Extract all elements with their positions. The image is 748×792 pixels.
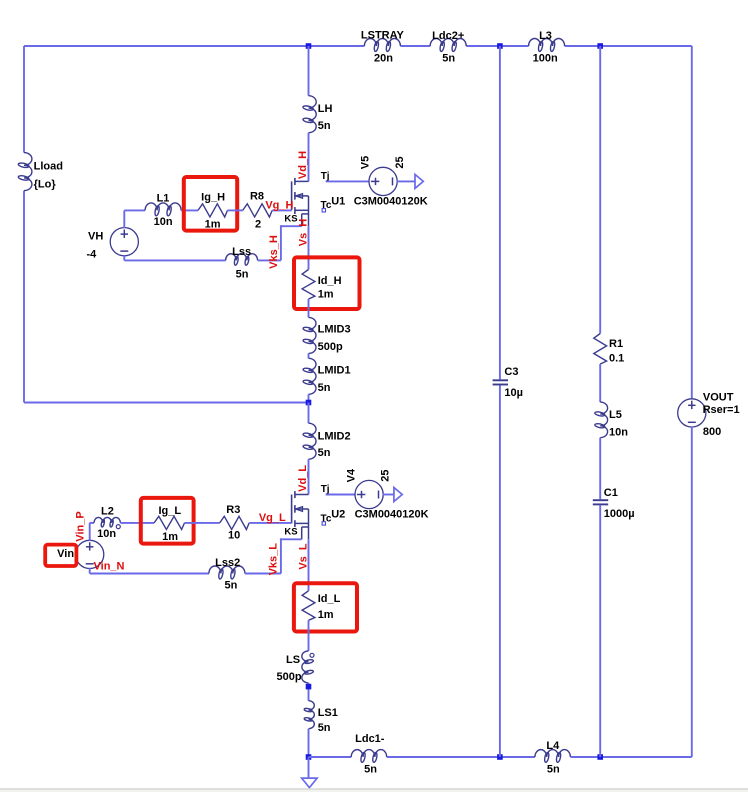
svg-text:Vg_H: Vg_H	[265, 199, 293, 211]
wire L4 to C1 bottom	[570, 756, 691, 758]
svg-text:Vks_H: Vks_H	[268, 235, 280, 269]
svg-text:20n: 20n	[374, 53, 393, 65]
wire L2 to Ig_L	[120, 522, 154, 524]
svg-text:1m: 1m	[162, 531, 178, 543]
inductor Lss	[226, 246, 258, 280]
svg-text:Lload: Lload	[34, 161, 63, 173]
svg-text:10: 10	[228, 529, 240, 541]
wire LH to U1 drain	[308, 133, 310, 182]
inductor Lss2	[209, 557, 245, 592]
wire Lss2 to KS riser	[245, 573, 281, 575]
wire Vin minus lead	[89, 568, 91, 573]
svg-text:Rser=1: Rser=1	[703, 404, 740, 416]
svg-text:2: 2	[255, 218, 261, 230]
svg-text:5n: 5n	[442, 52, 455, 64]
inductor L3	[529, 30, 565, 64]
svg-text:Id_L: Id_L	[318, 593, 341, 605]
node Vs_L label	[298, 543, 310, 570]
svg-text:5n: 5n	[364, 764, 377, 776]
transistor U1	[292, 178, 428, 226]
wire LMID1 to node	[308, 394, 310, 402]
ground V5	[415, 174, 423, 188]
svg-text:Ldc1-: Ldc1-	[355, 733, 385, 745]
svg-text:LMID3: LMID3	[318, 323, 351, 335]
voltage source V4	[346, 468, 392, 509]
ground main	[302, 778, 317, 788]
wire L5 to C1	[599, 438, 601, 500]
node Vks_L label	[268, 543, 280, 576]
wire VH minus lead	[123, 255, 125, 260]
wire C1 bottom lead	[599, 505, 601, 757]
ground V4	[394, 488, 402, 502]
svg-text:Ig_H: Ig_H	[201, 192, 225, 204]
svg-text:LMID2: LMID2	[318, 430, 351, 442]
resistor R1	[594, 334, 624, 365]
svg-text:KS: KS	[284, 527, 297, 538]
svg-text:Vd_H: Vd_H	[297, 151, 309, 179]
node Tj pin U2	[321, 484, 330, 495]
node Vd_H label	[297, 151, 309, 179]
inductor LMID3	[303, 317, 351, 353]
svg-text:L2: L2	[101, 505, 114, 517]
svg-text:1m: 1m	[318, 288, 334, 300]
svg-text:0.1: 0.1	[609, 352, 624, 364]
node C3-top junction	[497, 43, 503, 49]
node bottom junction	[306, 754, 312, 760]
svg-text:L5: L5	[609, 409, 622, 421]
svg-text:10µ: 10µ	[504, 387, 523, 399]
wire L1 to Ig_H	[181, 209, 198, 211]
wire VOUT top lead	[691, 46, 693, 399]
voltage source Vin	[57, 540, 104, 568]
inductor L5	[595, 402, 629, 438]
svg-text:LS1: LS1	[318, 707, 338, 719]
wire V4 to ground	[383, 494, 394, 496]
svg-text:U1: U1	[331, 195, 345, 207]
inductor L2	[94, 505, 120, 539]
svg-text:5n: 5n	[318, 120, 331, 132]
svg-text:Lss2: Lss2	[215, 557, 240, 569]
svg-text:5n: 5n	[318, 447, 331, 459]
svg-text:500p: 500p	[318, 341, 343, 353]
svg-text:LH: LH	[318, 103, 333, 115]
wire top rail a	[24, 45, 364, 47]
wire VH to Lss	[124, 259, 225, 261]
wire R1 top lead	[599, 46, 601, 334]
wire Id_L to LS	[308, 620, 310, 651]
svg-text:5n: 5n	[547, 764, 560, 776]
svg-text:L4: L4	[546, 740, 560, 752]
svg-text:R8: R8	[250, 190, 264, 202]
svg-text:Vin_N: Vin_N	[94, 561, 125, 573]
svg-text:{Lo}: {Lo}	[34, 178, 57, 190]
wire KS riser U2	[280, 538, 282, 573]
node Vin_P label	[74, 511, 86, 541]
node switch junction	[306, 400, 312, 406]
wire LMID3 to LMID1	[308, 353, 310, 358]
inductor LH	[303, 96, 333, 133]
wire left rail lower	[23, 191, 25, 403]
node Vks_H label	[268, 235, 280, 269]
wire KS horizontal U2	[281, 538, 302, 540]
wire Vin to Lss2	[90, 573, 209, 575]
svg-text:25: 25	[394, 156, 406, 168]
svg-text:V4: V4	[346, 468, 358, 482]
resistor R3	[220, 504, 250, 542]
capacitor C1	[593, 487, 635, 520]
node R1-top junction	[597, 43, 603, 49]
capacitor C3	[493, 366, 523, 399]
svg-text:Ldc2+: Ldc2+	[432, 30, 464, 42]
wire LMID2 to U2 drain	[308, 459, 310, 494]
highlight box Ig_H	[184, 177, 237, 231]
voltage source VH	[87, 228, 139, 261]
wire bottom to Ldc1-	[309, 756, 352, 758]
svg-text:VH: VH	[88, 230, 103, 242]
node C1-bottom junction	[597, 754, 603, 760]
svg-text:R1: R1	[609, 338, 623, 350]
node top-drain junction	[306, 43, 312, 49]
node LS-LS1 junction	[306, 684, 312, 690]
window edge	[0, 789, 748, 792]
svg-text:-4: -4	[87, 248, 98, 260]
wire KS horizontal U1	[281, 225, 302, 227]
wire U1 source to Id_H	[308, 226, 310, 269]
wire VH plus lead	[123, 210, 125, 228]
wire U2 source to Id_L	[308, 539, 310, 591]
highlight box Vin	[45, 545, 76, 566]
node Tc pin U1	[321, 200, 332, 212]
svg-text:Vin: Vin	[57, 548, 74, 560]
wire Id_H to LMID3	[308, 299, 310, 317]
node KS label U2	[284, 527, 297, 538]
svg-text:C3M0040120K: C3M0040120K	[354, 195, 428, 207]
node C3-bottom junction	[497, 754, 503, 760]
wire V5 to ground	[397, 180, 415, 182]
inductor LMID2	[303, 423, 351, 459]
node Vg_H label	[265, 199, 293, 211]
svg-text:1m: 1m	[318, 609, 334, 621]
svg-text:Id_H: Id_H	[318, 275, 342, 287]
svg-text:Vin_P: Vin_P	[74, 511, 86, 541]
svg-text:500p: 500p	[277, 671, 302, 683]
wire Ldc1- to C3 bottom	[387, 756, 535, 758]
svg-text:100n: 100n	[533, 52, 558, 64]
highlight box Id_H	[294, 257, 360, 309]
node Vg_L label	[259, 512, 286, 524]
wire Vin to L2	[90, 522, 94, 524]
resistor Id_H	[302, 270, 341, 301]
svg-text:C1: C1	[604, 487, 618, 499]
inductor L1	[145, 192, 181, 228]
inductor LS1	[304, 701, 338, 734]
wire LS to node	[308, 683, 310, 701]
wire KS riser U1	[280, 225, 282, 260]
inductor LSTRAY	[361, 30, 405, 65]
highlight box Id_L	[294, 583, 357, 631]
svg-text:VOUT: VOUT	[703, 391, 734, 403]
svg-text:R3: R3	[226, 504, 240, 516]
wire top rail c	[466, 45, 528, 47]
svg-text:5n: 5n	[224, 579, 237, 591]
wire R1 to L5	[599, 364, 601, 402]
wire Tj to V4	[326, 494, 356, 496]
wire LH top lead	[308, 46, 310, 96]
wire Lss to KS riser	[258, 259, 281, 261]
node Tj pin U1	[321, 171, 330, 182]
wire Vin plus lead	[89, 523, 91, 541]
svg-text:5n: 5n	[318, 382, 331, 394]
svg-text:10n: 10n	[609, 426, 628, 438]
node KS label U1	[284, 214, 297, 225]
svg-text:U2: U2	[331, 508, 345, 520]
wire Ig_H to R8	[228, 209, 243, 211]
wire R8 to U1 gate	[272, 209, 291, 211]
inductor Ldc1-	[351, 733, 387, 776]
svg-text:LMID1: LMID1	[318, 364, 351, 376]
wire top rail b	[400, 45, 430, 47]
svg-text:C3M0040120K: C3M0040120K	[355, 509, 429, 521]
inductor Ldc2+	[430, 30, 466, 65]
inductor Lload	[18, 153, 63, 191]
node Tc pin U2	[321, 513, 332, 525]
inductor LS	[277, 651, 314, 683]
resistor Ig_L	[154, 505, 184, 543]
svg-text:Ig_L: Ig_L	[158, 505, 181, 517]
svg-text:1000µ: 1000µ	[604, 508, 635, 520]
wire top rail d	[565, 45, 692, 47]
wire VH to L1	[124, 209, 145, 211]
svg-text:Tj: Tj	[321, 171, 330, 182]
svg-text:Tj: Tj	[321, 484, 330, 495]
svg-text:Lss: Lss	[232, 246, 251, 258]
node Vs_H label	[297, 219, 309, 247]
wire C3 top lead	[499, 46, 501, 379]
resistor R8	[243, 190, 273, 230]
svg-text:C3: C3	[504, 366, 518, 378]
resistor Ig_H	[198, 192, 228, 231]
svg-text:10n: 10n	[97, 528, 116, 540]
node Vd_L label	[297, 465, 309, 492]
svg-text:KS: KS	[284, 214, 297, 225]
svg-text:Vks_L: Vks_L	[268, 543, 280, 576]
voltage source VOUT	[678, 391, 740, 438]
wire VOUT bottom lead	[691, 427, 693, 757]
svg-text:V5: V5	[360, 156, 372, 169]
svg-text:5n: 5n	[236, 268, 249, 280]
wire node to LMID2	[308, 403, 310, 424]
svg-text:Vg_L: Vg_L	[259, 512, 286, 524]
wire Ig_L to R3	[185, 522, 220, 524]
svg-text:LS: LS	[286, 654, 300, 666]
node Vin_N label	[94, 561, 125, 573]
svg-text:25: 25	[380, 469, 392, 481]
transistor U2	[292, 491, 429, 539]
wire R3 to U2 gate	[249, 522, 291, 524]
svg-text:5n: 5n	[318, 722, 331, 734]
wire C3 bottom lead	[499, 386, 501, 758]
inductor L4	[535, 740, 571, 776]
inductor LMID1	[303, 358, 351, 394]
wire ground stub	[308, 757, 310, 778]
voltage source V5	[360, 156, 406, 196]
svg-text:10n: 10n	[154, 216, 173, 228]
wire LS1 to bottom node	[308, 729, 310, 757]
svg-text:L1: L1	[157, 192, 170, 204]
highlight box Ig_L	[141, 498, 194, 544]
resistor Id_L	[302, 591, 340, 621]
wire left rail upper	[23, 46, 25, 153]
wire Tj to V5	[326, 180, 370, 182]
wire switch-node horizontal	[24, 402, 309, 404]
svg-text:L3: L3	[539, 30, 552, 42]
svg-text:800: 800	[703, 426, 721, 438]
svg-text:LSTRAY: LSTRAY	[361, 30, 405, 42]
svg-text:Vd_L: Vd_L	[297, 465, 309, 492]
